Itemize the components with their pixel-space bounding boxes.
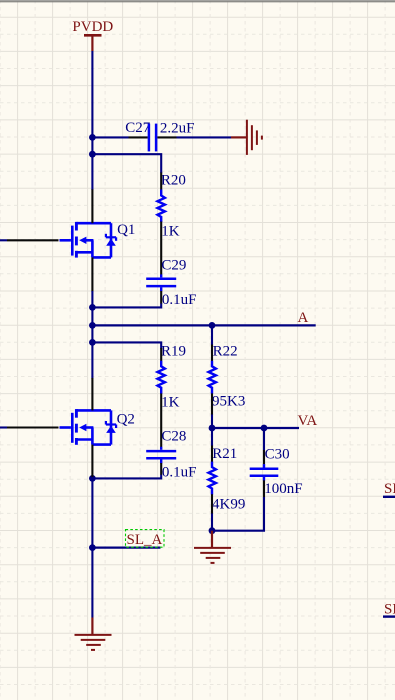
svg-text:C27: C27 [125, 120, 151, 136]
wire / pin source Q1 [91, 257, 93, 291]
wire net SL_A [92, 546, 160, 548]
wire net SL (upper right) [383, 496, 395, 498]
wire C30 bottom to ground junction [212, 497, 264, 531]
svg-text:R22: R22 [213, 344, 238, 360]
capacitor C30 [250, 428, 303, 498]
wire C27 to ground [177, 136, 232, 138]
svg-text:4K99: 4K99 [212, 497, 245, 513]
svg-text:A: A [298, 310, 309, 326]
resistor R22 [209, 325, 246, 428]
wire net A [92, 324, 315, 326]
svg-text:R20: R20 [161, 172, 186, 188]
svg-text:PVDD: PVDD [72, 19, 113, 35]
wire PVDD to node J1/J2 [91, 51, 93, 190]
ground (earth) at R21/C30 [194, 531, 231, 563]
svg-text:Q2: Q2 [117, 412, 135, 428]
node VA junction at C30 [261, 425, 268, 432]
node J2 junction [89, 151, 96, 158]
wire R19 branch row [92, 342, 161, 348]
wire R19 to C28 [160, 393, 162, 447]
svg-text:R21: R21 [212, 446, 237, 462]
svg-text:100nF: 100nF [264, 481, 302, 497]
svg-text:SL_A: SL_A [127, 532, 163, 548]
node A junction at R22 [209, 322, 216, 329]
resistor R19 [158, 343, 187, 410]
node C28 branch junction [89, 475, 96, 482]
resistor R20 [158, 172, 186, 239]
top window edge [0, 0, 395, 1]
wire / pin source Q2 [91, 445, 93, 478]
power port PVDD [72, 19, 113, 51]
svg-text:1K: 1K [161, 395, 180, 411]
node A junction on main [89, 322, 96, 329]
node C29 branch junction [89, 304, 96, 311]
transistor Q1 [0, 222, 135, 258]
svg-text:C28: C28 [161, 428, 186, 444]
svg-text:1K: 1K [161, 224, 180, 240]
wire / pin drain Q1 [91, 189, 93, 223]
svg-text:0.1uF: 0.1uF [162, 465, 197, 481]
wire net VA [212, 427, 299, 429]
svg-text:C30: C30 [265, 446, 290, 462]
wire C28 bottom to main [92, 463, 161, 478]
node J1 junction [89, 134, 96, 141]
ground (earth, rotated) at C27 [231, 120, 262, 155]
svg-text:R19: R19 [161, 343, 186, 359]
capacitor C27 [125, 120, 194, 151]
node VA junction at R21 [209, 425, 216, 432]
node SL_A junction [89, 544, 96, 551]
wire R20 to C29 [160, 222, 162, 275]
svg-text:95K3: 95K3 [212, 394, 245, 410]
capacitor C29 [146, 257, 196, 308]
wire C29 bottom to main [92, 291, 161, 307]
wire main Q2 to ground [91, 477, 93, 618]
wire J2 to R20 branch [92, 154, 161, 173]
wire C27 row from J1 [92, 136, 128, 138]
ground (earth) at main bottom [75, 618, 112, 650]
node ground junction R21/C30 [209, 527, 216, 534]
resistor R21 [209, 428, 246, 531]
svg-text:VA: VA [298, 413, 318, 429]
node R19 branch junction [89, 339, 96, 346]
net label SL_A (selected) [126, 530, 165, 548]
svg-text:SL: SL [384, 481, 395, 497]
svg-text:C29: C29 [161, 257, 186, 273]
svg-text:0.1uF: 0.1uF [162, 292, 197, 308]
wire main between Q1 and Q2 [91, 291, 93, 379]
wire / pin drain Q2 [91, 378, 93, 411]
svg-text:SL: SL [384, 602, 395, 618]
transistor Q2 [0, 409, 135, 445]
wire net SL (lower right) [383, 615, 395, 617]
capacitor C28 [146, 428, 196, 480]
svg-text:2.2uF: 2.2uF [160, 121, 195, 137]
svg-text:Q1: Q1 [117, 222, 135, 238]
